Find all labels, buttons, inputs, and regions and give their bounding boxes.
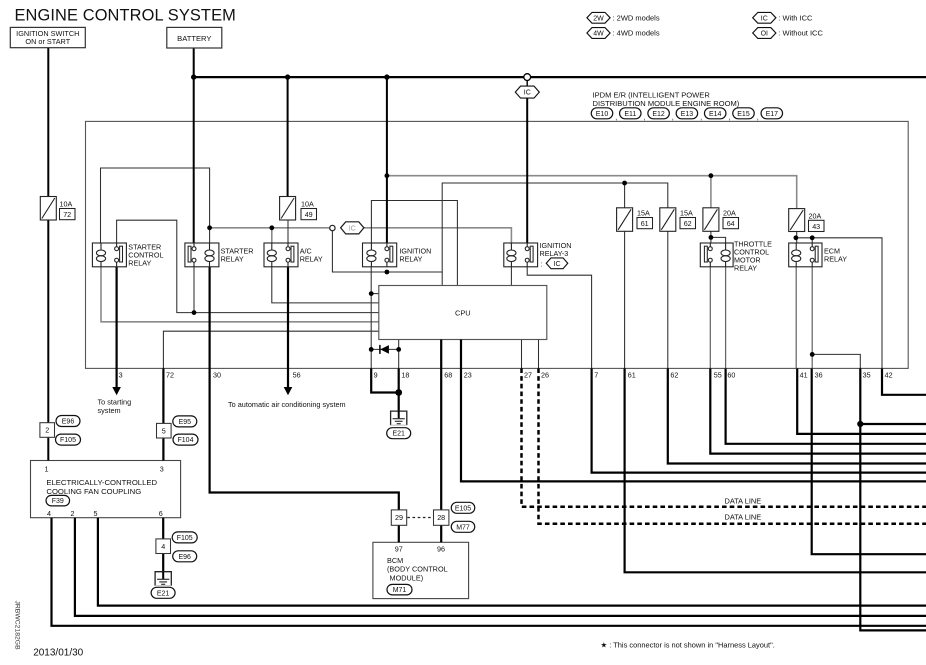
svg-text:4: 4 [161,542,165,551]
svg-text:E15: E15 [737,111,750,118]
svg-text:E96: E96 [62,419,75,426]
svg-text:55: 55 [714,371,722,380]
svg-text:,: , [757,113,759,122]
svg-text:5: 5 [162,426,166,435]
svg-text:20A: 20A [809,211,822,220]
svg-text:27: 27 [524,371,532,380]
svg-text:6: 6 [159,509,163,518]
svg-text:23: 23 [464,371,472,380]
svg-text:9: 9 [374,371,378,380]
svg-text:60: 60 [727,371,735,380]
svg-text:68: 68 [444,371,452,380]
svg-text:To automatic air conditioning: To automatic air conditioning system [228,400,346,409]
svg-text:,: , [615,113,617,122]
svg-text:E105: E105 [455,505,471,512]
svg-text:96: 96 [437,544,445,553]
svg-text:F105: F105 [60,437,76,444]
svg-text:15A: 15A [637,209,650,218]
svg-text:F39: F39 [52,498,64,505]
svg-text:: 4WD models: : 4WD models [613,29,660,38]
svg-text:,: , [700,113,702,122]
svg-text:RELAY: RELAY [300,255,323,264]
svg-text:62: 62 [670,371,678,380]
svg-text:,: , [672,113,674,122]
svg-text:26: 26 [541,371,549,380]
svg-text:IC: IC [524,90,531,97]
svg-text:36: 36 [815,371,823,380]
svg-text:2: 2 [45,426,49,435]
svg-text:E13: E13 [681,111,694,118]
svg-text:72: 72 [63,210,71,219]
svg-text:42: 42 [885,371,893,380]
svg-text:M77: M77 [456,524,470,531]
svg-text:JRBWC2182GB: JRBWC2182GB [14,601,21,651]
svg-text:ON or START: ON or START [25,37,70,46]
svg-text:10A: 10A [301,200,314,209]
svg-text:2W: 2W [593,15,604,22]
svg-text:62: 62 [684,219,692,228]
svg-text:7: 7 [594,371,598,380]
svg-text:E11: E11 [624,111,636,118]
svg-text:2013/01/30: 2013/01/30 [33,647,83,658]
svg-text:30: 30 [213,371,221,380]
svg-text:18: 18 [401,371,409,380]
svg-text:29: 29 [395,513,403,522]
svg-text:49: 49 [305,210,313,219]
svg-text:4W: 4W [593,31,604,38]
svg-text:4: 4 [47,509,51,518]
svg-text:COOLING FAN COUPLING: COOLING FAN COUPLING [46,487,141,496]
svg-text:IC: IC [554,261,561,268]
svg-text:RELAY: RELAY [128,259,151,268]
svg-text:RELAY: RELAY [221,255,244,264]
svg-text:RELAY-3: RELAY-3 [540,249,569,258]
svg-text:41: 41 [800,371,808,380]
svg-text:ENGINE CONTROL SYSTEM: ENGINE CONTROL SYSTEM [15,6,236,24]
svg-text:M71: M71 [393,587,407,594]
svg-text:43: 43 [812,222,820,231]
svg-text:(BODY CONTROL: (BODY CONTROL [387,565,448,574]
svg-text:1: 1 [45,464,49,473]
svg-text:OI: OI [761,31,768,38]
svg-text:15A: 15A [680,209,693,218]
svg-text:DISTRIBUTION MODULE ENGINE ROO: DISTRIBUTION MODULE ENGINE ROOM) [593,99,740,108]
svg-text:E95: E95 [179,419,192,426]
svg-text:,: , [728,113,730,122]
svg-text:E21: E21 [157,590,170,597]
svg-text:64: 64 [727,219,735,228]
svg-text:E10: E10 [596,111,609,118]
svg-text:DATA LINE: DATA LINE [725,512,762,521]
svg-text:5: 5 [94,509,98,518]
svg-text:E17: E17 [766,111,779,118]
svg-text::: : [541,259,543,268]
svg-text:20A: 20A [723,209,736,218]
svg-text:,: , [644,113,646,122]
svg-text:BCM: BCM [387,556,403,565]
svg-text:35: 35 [863,371,871,380]
svg-text:F104: F104 [178,437,194,444]
svg-text:97: 97 [395,544,403,553]
svg-text:: With ICC: : With ICC [778,13,813,22]
svg-text:system: system [98,406,121,415]
svg-text:RELAY: RELAY [399,255,422,264]
svg-text:MODULE): MODULE) [390,573,424,582]
svg-text:IC: IC [349,225,356,232]
svg-text:RELAY: RELAY [734,264,757,273]
svg-text:56: 56 [293,371,301,380]
svg-text:F105: F105 [177,535,193,542]
svg-text:E12: E12 [652,111,665,118]
svg-text:★ : This connector is not show: ★ : This connector is not shown in "Harn… [601,641,775,650]
svg-text:: 2WD models: : 2WD models [613,13,660,22]
svg-text:E14: E14 [709,111,722,118]
svg-text:: Without ICC: : Without ICC [778,29,823,38]
svg-text:IC: IC [761,15,768,22]
svg-text:E21: E21 [392,431,405,438]
svg-text:2: 2 [71,509,75,518]
svg-text:3: 3 [160,464,164,473]
svg-text:CPU: CPU [455,309,471,318]
svg-text:RELAY: RELAY [824,255,847,264]
svg-text:61: 61 [628,371,636,380]
svg-text:BATTERY: BATTERY [177,34,211,43]
svg-text:28: 28 [437,513,445,522]
svg-text:DATA LINE: DATA LINE [725,496,762,505]
svg-text:72: 72 [166,371,174,380]
svg-text:3: 3 [119,371,123,380]
svg-text:E96: E96 [178,554,191,561]
svg-text:10A: 10A [60,200,73,209]
svg-text:61: 61 [641,219,649,228]
